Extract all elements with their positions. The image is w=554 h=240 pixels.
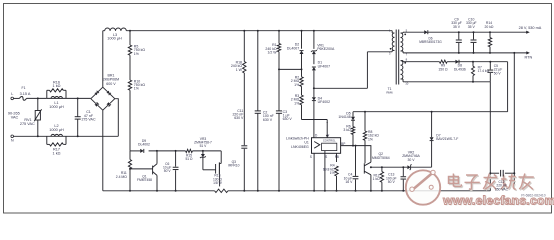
wire secondary top (403, 31, 424, 33)
resistor R5 (128, 31, 145, 56)
wire output+ (428, 31, 527, 33)
transistor Q1 (130, 151, 157, 191)
capacitor C11 (232, 73, 247, 191)
zener VR2 (402, 150, 431, 170)
resistor R6 (343, 124, 354, 145)
wire L2 right (68, 135, 119, 137)
svg-text:FB: FB (335, 155, 339, 159)
svg-text:150 Ω: 150 Ω (438, 67, 448, 71)
svg-text:L: L (11, 92, 13, 96)
svg-text:S: S (310, 155, 312, 159)
inductor L3 (105, 28, 127, 41)
capacitor C1 (75, 97, 96, 136)
svg-text:1000 µH: 1000 µH (107, 37, 122, 41)
svg-text:RM6: RM6 (386, 90, 393, 94)
svg-text:1%: 1% (294, 83, 299, 87)
wire bias row (403, 61, 491, 63)
inductor L1 (47, 96, 66, 108)
svg-text:630 V: 630 V (263, 118, 273, 122)
diode D7 (430, 112, 459, 168)
wire bridge bottom to gnd rail (102, 110, 104, 191)
svg-text:1000 µH: 1000 µH (49, 128, 64, 132)
svg-text:BAV21WS-7-F: BAV21WS-7-F (436, 137, 458, 141)
svg-text:S: S (325, 155, 327, 159)
capacitor C6 (163, 151, 179, 191)
resistor R2 (291, 75, 303, 95)
svg-text:UF4002: UF4002 (318, 100, 331, 104)
svg-text:3.15 A: 3.15 A (20, 92, 31, 96)
svg-text:CONTROL: CONTROL (323, 138, 336, 142)
text input voltage (8, 112, 20, 120)
svg-text:51 V: 51 V (200, 144, 208, 148)
svg-text:1%: 1% (330, 171, 335, 175)
wire RTN rail (403, 52, 527, 54)
svg-text:1%: 1% (294, 101, 299, 105)
diode D6 (419, 30, 442, 44)
wire L1 to bridge (66, 97, 91, 99)
top rail (103, 30, 392, 32)
resistor R11 (116, 151, 132, 191)
watermark logo (406, 170, 440, 205)
svg-text:1%: 1% (134, 87, 139, 91)
resistor R10 (128, 55, 145, 151)
svg-text:1%: 1% (134, 52, 139, 56)
wire bias return (403, 81, 490, 83)
wire D8 right (459, 61, 508, 63)
svg-text:1 kΩ: 1 kΩ (373, 177, 381, 181)
wire drain link (314, 52, 392, 89)
bridge rectifier BR1 (91, 73, 119, 110)
svg-text:1%: 1% (368, 137, 373, 141)
svg-text:F1: F1 (22, 86, 26, 90)
diode D1 (312, 61, 330, 98)
wire Q2 line (370, 166, 408, 168)
wire bridge right to N rail (115, 99, 119, 137)
svg-text:28 V, 530 mA: 28 V, 530 mA (519, 26, 542, 30)
svg-text:P6KE200A: P6KE200A (317, 47, 335, 51)
capacitor C10 (466, 17, 477, 53)
svg-text:IRFR10: IRFR10 (228, 164, 240, 168)
svg-text:30 V: 30 V (408, 158, 416, 162)
transformer T1 (386, 28, 408, 94)
wire N to node (14, 135, 46, 137)
resistor R1 (265, 31, 301, 71)
resistor R8 (363, 112, 379, 164)
svg-text:LNK406EG: LNK406EG (291, 145, 309, 149)
svg-text:1 kΩ: 1 kΩ (53, 151, 61, 155)
svg-text:275 VAC: 275 VAC (20, 122, 35, 126)
resistor R16 (47, 80, 66, 98)
svg-text:FMMT458: FMMT458 (137, 178, 152, 182)
capacitor C13 (386, 167, 406, 191)
svg-text:RTN: RTN (525, 56, 533, 60)
svg-text:50 V: 50 V (494, 71, 502, 75)
svg-text:MBRS4501T3G: MBRS4501T3G (419, 40, 442, 44)
capacitor C2 (255, 31, 274, 191)
resistor R13 (213, 174, 223, 185)
wire RTN down (513, 53, 515, 189)
capacitor C9 (451, 17, 462, 53)
svg-text:PI-6862-082410: PI-6862-082410 (521, 194, 545, 198)
wire R9 to D8 (447, 61, 455, 63)
wire R3 to V pin (302, 120, 328, 124)
diode D5 (338, 111, 355, 126)
capacitor C12 (490, 170, 515, 191)
diode D2 (287, 31, 304, 77)
svg-text:DL4002: DL4002 (138, 143, 150, 147)
resistor R12 (373, 167, 384, 191)
svg-text:630 V: 630 V (234, 116, 244, 120)
op-amp U1 LinkSwitch-PH IC (286, 122, 345, 191)
wire C5 down (489, 82, 491, 191)
varistor RV1 (20, 98, 42, 136)
wire BP line (341, 145, 372, 147)
svg-text:630 V: 630 V (283, 117, 293, 121)
capacitor C3 (276, 69, 293, 190)
svg-text:51 Ω: 51 Ω (185, 157, 193, 161)
resistor R9 (438, 60, 448, 71)
svg-text:1/8 W: 1/8 W (213, 181, 222, 185)
resistor R15 (185, 149, 193, 161)
svg-text:20 kΩ: 20 kΩ (485, 25, 494, 29)
svg-text:16 V: 16 V (345, 180, 353, 184)
capacitor C5 (487, 62, 502, 82)
resistor R14 (485, 21, 494, 53)
resistor R7 (472, 62, 490, 82)
ground rail (103, 189, 491, 192)
resistor R17 (47, 136, 66, 155)
svg-text:1000 µH: 1000 µH (49, 105, 64, 109)
diode D8 (454, 60, 466, 72)
RTN arrow (525, 51, 533, 59)
svg-text:3 kΩ: 3 kΩ (343, 128, 351, 132)
fuse F1 (14, 86, 31, 100)
svg-text:600 V: 600 V (106, 82, 116, 86)
inductor L2 (46, 124, 68, 136)
svg-text:2.4 MΩ: 2.4 MΩ (116, 175, 127, 179)
output arrow (519, 26, 542, 34)
svg-text:250 VAC: 250 VAC (495, 187, 509, 191)
zener VR3 (194, 137, 215, 170)
svg-text:VAC: VAC (11, 115, 19, 119)
diode D4 (312, 96, 330, 137)
resistor R18 (231, 31, 246, 73)
watermark url (442, 193, 554, 208)
diode D9 (138, 139, 150, 153)
svg-text:1 kΩ: 1 kΩ (53, 84, 61, 88)
resistor R4 (323, 164, 338, 191)
watermark text dianzifashaoyou (449, 174, 535, 191)
svg-text:DL4936: DL4936 (454, 67, 466, 71)
wire L to node (27, 97, 47, 99)
svg-text:DL4007: DL4007 (287, 46, 299, 50)
capacitor C4 (344, 146, 359, 191)
wire bridge top to rail (102, 31, 104, 87)
svg-text:50 V: 50 V (388, 180, 396, 184)
wire D9 line (130, 150, 221, 152)
svg-text:1N4148: 1N4148 (338, 115, 350, 119)
terminal L (11, 92, 14, 100)
wire bias vert right (507, 62, 509, 112)
svg-text:1/2 W: 1/2 W (267, 50, 277, 54)
svg-text:N: N (11, 139, 14, 143)
svg-text:MMDT5064: MMDT5064 (372, 156, 390, 160)
text PI number (521, 194, 545, 198)
svg-text:UF4007: UF4007 (318, 64, 331, 68)
transistor Q2 (364, 146, 389, 191)
svg-text:1 W: 1 W (236, 68, 243, 72)
wire bias rail (353, 111, 508, 113)
transistor Q3 (216, 151, 240, 187)
svg-text:50 V: 50 V (164, 169, 172, 173)
terminal N (11, 135, 14, 143)
svg-text:35 V: 35 V (468, 25, 476, 29)
resistor R3 (291, 94, 303, 120)
svg-text:275 VAC: 275 VAC (81, 118, 96, 122)
svg-text:35 V: 35 V (453, 25, 461, 29)
zener VR1 (311, 31, 335, 64)
